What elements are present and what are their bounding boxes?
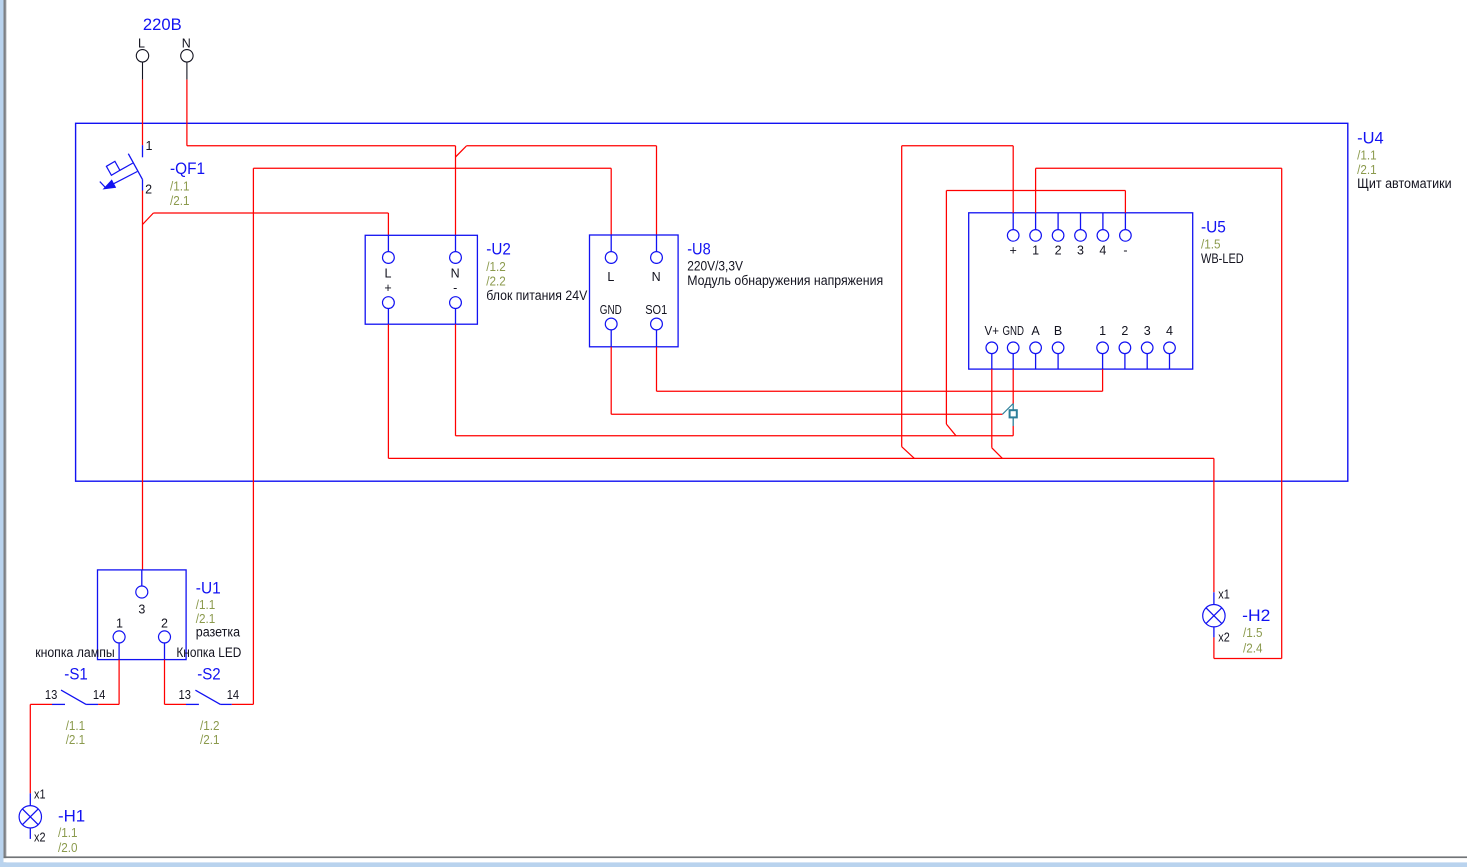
svg-text:4: 4 [1099, 243, 1106, 257]
svg-text:-U8: -U8 [687, 239, 711, 258]
WB-LED module U5 outline [969, 213, 1193, 369]
svg-text:/1.1: /1.1 [170, 180, 190, 194]
socket U1 (разетка) outline [98, 570, 187, 660]
U8 pin L [605, 235, 617, 284]
svg-text:2: 2 [1121, 324, 1128, 338]
svg-text:x2: x2 [1218, 630, 1230, 644]
pushbutton S1 contact [52, 690, 98, 704]
svg-text:+: + [384, 281, 391, 295]
U5 top pin + [1007, 213, 1019, 257]
U1 pin 1 [113, 617, 125, 660]
wire N down [186, 80, 188, 146]
svg-text:-U1: -U1 [196, 578, 221, 597]
U8 pin GND [600, 303, 622, 347]
wire down to U8 pin N [656, 146, 658, 235]
wire +24V riser to U5 + [902, 146, 1014, 459]
svg-text:Щит автоматики: Щит автоматики [1357, 176, 1452, 191]
wire U8 SO1 to U5 pin1 bottom [657, 347, 1103, 392]
wire U5 GND bottom [1012, 369, 1014, 436]
svg-text:Кнопка LED: Кнопка LED [176, 645, 241, 660]
wire U2 minus to U5 GND [456, 324, 1014, 436]
terminal L [136, 37, 148, 80]
svg-text:14: 14 [93, 688, 105, 702]
voltage detect module U8 outline [590, 235, 679, 347]
wire N horizontal to U8 N [466, 145, 656, 147]
svg-text:/1.5: /1.5 [1243, 626, 1263, 640]
svg-text:/1.2: /1.2 [200, 719, 220, 733]
wire S1 pin13 to H1 [30, 704, 52, 793]
svg-text:L: L [607, 270, 614, 284]
svg-text:N: N [652, 270, 661, 284]
svg-text:3: 3 [1144, 324, 1151, 338]
svg-text:/2.1: /2.1 [170, 194, 190, 208]
svg-text:блок питания 24V: блок питания 24V [486, 288, 587, 303]
label H1 [58, 806, 85, 855]
svg-text:/1.2: /1.2 [486, 260, 506, 274]
svg-text:разетка: разетка [196, 624, 241, 639]
svg-text:Модуль обнаружения напряжения: Модуль обнаружения напряжения [687, 273, 883, 288]
svg-text:/2.2: /2.2 [486, 275, 506, 289]
svg-text:4: 4 [1166, 324, 1173, 338]
label S2 [197, 664, 221, 747]
label H2 [1242, 606, 1270, 656]
wire U8 L to S2 pin 14 [253, 168, 611, 704]
wire minus riser to U5 - [946, 191, 1125, 436]
svg-text:1: 1 [116, 617, 123, 631]
svg-text:SO1: SO1 [645, 303, 667, 317]
U5 top pin 2 [1052, 213, 1064, 257]
svg-text:GND: GND [1002, 324, 1024, 338]
svg-text:3: 3 [1077, 243, 1084, 257]
svg-text:13: 13 [45, 688, 57, 702]
svg-text:/2.4: /2.4 [1243, 641, 1263, 655]
U5 top pin 3 [1075, 213, 1087, 257]
U5 bottom pin 2 [1119, 324, 1131, 369]
svg-text:/1.1: /1.1 [196, 598, 216, 612]
svg-text:/2.1: /2.1 [66, 733, 86, 747]
U5 top pin - [1120, 213, 1132, 257]
U5 bottom pin V+ [985, 324, 1000, 369]
pushbutton S2 contact [186, 690, 232, 704]
svg-text:x1: x1 [1218, 588, 1230, 602]
wire L to QF1 pin 1 [142, 80, 144, 146]
svg-text:220В: 220В [143, 15, 182, 34]
svg-text:WB-LED: WB-LED [1201, 251, 1244, 266]
svg-text:14: 14 [227, 688, 239, 702]
U5 bottom pin GND [1002, 324, 1024, 369]
svg-text:/1.1: /1.1 [1357, 149, 1377, 163]
svg-text:+: + [1010, 243, 1017, 257]
svg-text:-U5: -U5 [1201, 218, 1226, 237]
svg-text:-QF1: -QF1 [170, 159, 205, 178]
U2 pin L [383, 235, 395, 280]
svg-text:x2: x2 [34, 830, 46, 844]
wire U8 GND to node [611, 347, 1002, 415]
svg-text:/1.1: /1.1 [58, 826, 78, 840]
svg-text:/2.1: /2.1 [200, 733, 220, 747]
U2 pin N [450, 235, 462, 280]
wire S2 pin14 to riser [232, 703, 254, 705]
svg-text:V+: V+ [985, 324, 1000, 338]
svg-text:-U4: -U4 [1357, 128, 1384, 147]
U8 pin SO1 [645, 303, 667, 347]
label U4 [1357, 128, 1452, 191]
net junction symbol (teal) [1002, 404, 1016, 427]
wire QF1 pin2 down to U1 pin3 [142, 191, 144, 570]
wire U5 pin1 top to H2 riser [1036, 168, 1282, 658]
label U8 [687, 239, 883, 288]
U5 top pin 4 [1097, 213, 1109, 257]
svg-text:N: N [451, 266, 460, 280]
wire branch to U2 L [143, 213, 389, 235]
svg-text:кнопка лампы: кнопка лампы [35, 645, 115, 660]
svg-text:/2.0: /2.0 [58, 841, 78, 855]
svg-text:2: 2 [145, 183, 152, 197]
U8 pin N [651, 235, 663, 284]
svg-text:1: 1 [1032, 243, 1039, 257]
wire U1 pin2 to S2 pin13 [165, 660, 187, 705]
svg-text:-S2: -S2 [197, 664, 221, 683]
U2 pin + [383, 281, 395, 324]
svg-text:-U2: -U2 [486, 239, 511, 258]
U5 bottom pin A [1030, 324, 1042, 369]
label QF1 [170, 159, 205, 208]
svg-text:-: - [1123, 243, 1127, 257]
lamp H1 [19, 793, 41, 839]
wire N horizontal to U2 N junction [187, 145, 456, 147]
svg-text:L: L [138, 37, 145, 51]
label U2 [486, 239, 587, 303]
terminal N [181, 37, 193, 80]
svg-text:x1: x1 [34, 787, 46, 801]
wire H2 x2 return to riser [1214, 637, 1282, 658]
U1 pin 2 [159, 617, 171, 660]
label U5 [1201, 218, 1244, 266]
svg-text:-H2: -H2 [1242, 606, 1270, 625]
svg-text:L: L [385, 266, 392, 280]
power supply U2 outline [365, 235, 477, 324]
U5 bottom pin 3 [1141, 324, 1153, 369]
svg-text:-S1: -S1 [64, 664, 88, 683]
svg-text:13: 13 [179, 688, 191, 702]
svg-text:220V/3,3V: 220V/3,3V [687, 259, 743, 274]
node 220В supply [143, 15, 182, 34]
circuit-breaker QF1 [100, 145, 143, 190]
wire U1 pin1 to S1 pin14 [98, 660, 119, 705]
svg-text:2: 2 [1055, 243, 1062, 257]
wire U5 V+ drop [992, 369, 1003, 458]
U5 top pin 1 [1030, 213, 1042, 257]
window chrome bottom bar [4, 856, 1467, 867]
svg-text:GND: GND [600, 303, 622, 317]
label S1 [64, 664, 88, 747]
enclosure U4 (Щит автоматики) outline [76, 123, 1348, 481]
svg-text:/1.5: /1.5 [1201, 237, 1221, 251]
svg-text:-H1: -H1 [58, 806, 85, 825]
window chrome left bar [0, 0, 7, 867]
U1 pin 3 [136, 570, 148, 617]
wire U2 plus to H2 (24V rail) [388, 324, 1214, 592]
svg-text:1: 1 [146, 139, 153, 153]
U2 pin - [450, 281, 462, 324]
label U1 [196, 578, 241, 639]
svg-text:/2.1: /2.1 [1357, 163, 1377, 177]
svg-text:-: - [453, 281, 457, 295]
svg-text:A: A [1031, 324, 1040, 338]
lamp H2 [1203, 592, 1225, 637]
wire jog U2 N joins N net [456, 146, 467, 236]
svg-text:2: 2 [161, 617, 168, 631]
U5 bottom pin 1 [1097, 324, 1109, 369]
svg-text:3: 3 [138, 602, 145, 616]
U5 bottom pin 4 [1164, 324, 1176, 369]
svg-text:B: B [1054, 324, 1062, 338]
svg-text:1: 1 [1099, 324, 1106, 338]
svg-text:N: N [182, 37, 191, 51]
svg-text:/1.1: /1.1 [66, 719, 86, 733]
U5 bottom pin B [1052, 324, 1064, 369]
